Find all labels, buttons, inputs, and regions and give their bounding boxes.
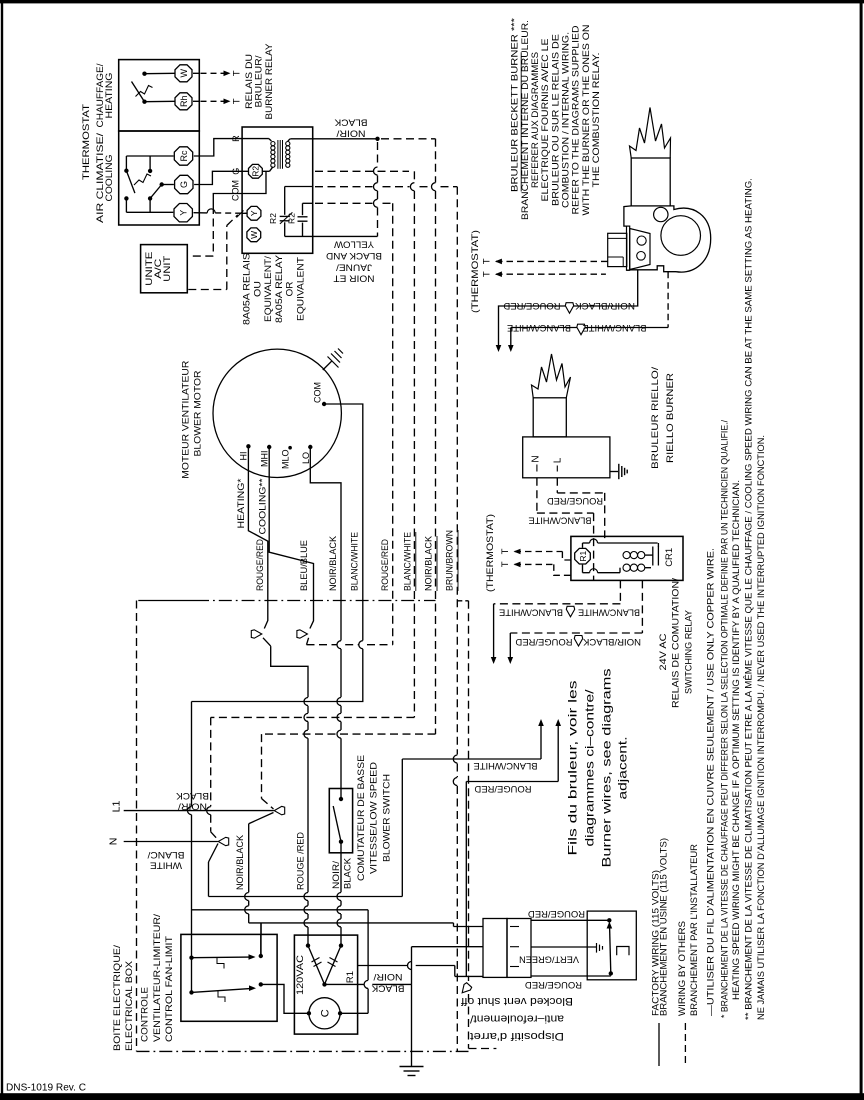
svg-text:NOIR/: NOIR/	[373, 971, 402, 982]
svg-text:MOTEUR VENTILATEUR: MOTEUR VENTILATEUR	[180, 361, 191, 479]
wire junction down (hops)	[377, 142, 379, 167]
svg-text:W: W	[179, 69, 189, 78]
wire B dashed from relay	[315, 170, 409, 172]
terminal Y	[174, 204, 192, 222]
wire G to relay	[194, 171, 242, 184]
legend WIRING BY OTHERS	[684, 1023, 686, 1066]
wire relay COM to A/C unit	[213, 194, 242, 207]
relay 8A05A box	[242, 127, 313, 253]
svg-text:BOITE ELECTRIQUE/: BOITE ELECTRIQUE/	[112, 945, 123, 1051]
blower motor circle	[213, 349, 341, 477]
relay COM wire	[242, 171, 266, 193]
svg-text:OR: OR	[285, 281, 296, 296]
Riello body	[523, 437, 610, 478]
wire D dashed from relay	[315, 202, 373, 204]
rail2 y909.8	[192, 909, 369, 911]
svg-text:N: N	[108, 838, 120, 846]
svg-text:COM: COM	[231, 180, 241, 201]
svg-text:UNIT: UNIT	[162, 255, 173, 281]
svg-text:R: R	[231, 135, 241, 142]
rail3 L1 y922.9	[249, 922, 454, 924]
relay contact R2 (NO)	[302, 203, 304, 215]
svg-text:NOIR ET: NOIR ET	[333, 273, 374, 284]
unit A/C box	[141, 245, 188, 293]
svg-text:BLACK: BLACK	[371, 983, 405, 994]
svg-text:JAUNE/: JAUNE/	[336, 261, 372, 272]
svg-text:—UTILISER DU FIL D’ALIMENTATIO: —UTILISER DU FIL D’ALIMENTATION EN CUIVR…	[705, 548, 716, 1016]
svg-text:G: G	[231, 168, 241, 175]
svg-text:Fils du bruleur, voir les: Fils du bruleur, voir les	[566, 681, 580, 856]
svg-text:T: T	[500, 561, 511, 567]
svg-text:BLANC/WHITE: BLANC/WHITE	[507, 322, 571, 333]
svg-text:BLACK AND: BLACK AND	[326, 250, 382, 261]
svg-text:WIRING BY OTHERS: WIRING BY OTHERS	[677, 921, 688, 1016]
motor terminals HI MHI MLO LO	[246, 444, 250, 448]
svg-text:BURNER RELAY: BURNER RELAY	[264, 43, 275, 120]
svg-text:ELECTRICAL BOX: ELECTRICAL BOX	[124, 960, 135, 1051]
svg-text:BLACK: BLACK	[175, 790, 209, 801]
svg-text:Burner wires, see diagrams: Burner wires, see diagrams	[600, 669, 614, 868]
svg-text:BLANC/: BLANC/	[147, 849, 184, 860]
svg-text:COM: COM	[313, 382, 323, 403]
svg-text:NE JAMAIS UTILISER LA FONCTION: NE JAMAIS UTILISER LA FONCTION D’ALLUMAG…	[756, 435, 767, 1020]
svg-text:VITESSE/LOW SPEED: VITESSE/LOW SPEED	[369, 762, 380, 874]
relay terminal W	[247, 228, 261, 242]
svg-text:T: T	[500, 548, 511, 554]
C circle	[309, 998, 340, 1029]
motor ground	[323, 361, 332, 370]
svg-text:NOIR/: NOIR/	[178, 801, 207, 812]
node NOIR/BLACK junction	[375, 137, 379, 141]
svg-text:(THERMOSTAT): (THERMOSTAT)	[470, 230, 481, 313]
wire N riser to rail1	[209, 844, 219, 863]
terminal Rh	[175, 93, 192, 110]
svg-text:ROUGE/RED: ROUGE/RED	[474, 783, 531, 794]
wire BLEU/BLUE from MHI	[269, 447, 313, 629]
svg-text:BLEU/BLUE: BLEU/BLUE	[299, 540, 310, 591]
blocked vent shut off box	[587, 911, 636, 980]
svg-text:R1: R1	[345, 971, 356, 983]
svg-text:BLANC/WHITE: BLANC/WHITE	[499, 607, 563, 618]
svg-text:Y: Y	[179, 210, 189, 216]
CR1 contact	[652, 547, 654, 566]
wire B dashed lower	[211, 716, 415, 718]
transformer in relay	[242, 138, 269, 140]
svg-text:BLANC/WHITE: BLANC/WHITE	[529, 515, 592, 526]
svg-text:BLANC/WHITE: BLANC/WHITE	[583, 322, 647, 333]
svg-text:CR1: CR1	[664, 548, 675, 567]
wire CR1 NOIR/BLACK out	[641, 580, 643, 633]
svg-text:BLANC/WHITE: BLANC/WHITE	[350, 532, 361, 591]
svg-text:24V AC: 24V AC	[658, 633, 669, 670]
svg-text:* BRANCHEMENT DE LA VITESSE D: * BRANCHEMENT DE LA VITESSE DE CHAUFFAGE…	[720, 420, 731, 1018]
svg-text:MHI: MHI	[260, 451, 270, 468]
Beckett air tube	[631, 158, 670, 206]
svg-text:BLANC/WHITE: BLANC/WHITE	[402, 532, 413, 591]
svg-text:8A05A RELAY: 8A05A RELAY	[274, 254, 285, 323]
svg-text:HEATING: HEATING	[104, 73, 115, 119]
wire switch to 120VAC box	[340, 842, 342, 853]
svg-text:diagrammes ci–contre/: diagrammes ci–contre/	[583, 689, 597, 847]
svg-text:ROUGE/RED: ROUGE/RED	[525, 979, 582, 990]
connector N spade	[218, 837, 229, 845]
legend FACTORY WIRING	[658, 1023, 660, 1066]
svg-text:EQUIVALENT/: EQUIVALENT/	[263, 256, 274, 322]
Beckett small circle	[654, 207, 668, 221]
BRUN jog line	[457, 600, 468, 602]
svg-text:R2: R2	[251, 166, 261, 177]
svg-text:ROUGE/RED: ROUGE/RED	[255, 539, 266, 591]
svg-text:VERT/GREEN: VERT/GREEN	[519, 954, 579, 965]
svg-text:WHITE: WHITE	[150, 860, 182, 871]
CR1 internal wiring top	[582, 543, 584, 548]
blower switch box	[329, 789, 352, 853]
connector L1 spade	[274, 806, 285, 814]
relay coil R1 terminal	[575, 548, 591, 564]
cooling switch	[126, 155, 173, 157]
wire NOIR/BLACK from LO	[310, 447, 341, 641]
Beckett connector plate	[630, 229, 650, 270]
vent switch symbol	[617, 947, 629, 956]
electrical box dashed boundary	[136, 601, 138, 1052]
svg-text:NOIR/BLACK: NOIR/BLACK	[235, 834, 246, 890]
Riello flame	[532, 354, 571, 398]
svg-text:COMUTATEUR DE BASSE: COMUTATEUR DE BASSE	[356, 755, 367, 881]
svg-text:NOIR/BLACK: NOIR/BLACK	[328, 535, 339, 591]
wire W to burner relay T	[193, 72, 199, 74]
ground wire	[411, 984, 413, 1066]
svg-text:N: N	[531, 455, 542, 462]
wire A dashed vertical	[435, 139, 437, 183]
svg-text:L: L	[553, 457, 564, 463]
svg-text:HI: HI	[239, 452, 249, 461]
svg-text:BRUN/BROWN: BRUN/BROWN	[445, 530, 456, 591]
small ground in shut off	[596, 943, 598, 953]
fan-limit right terminal wires	[260, 934, 262, 956]
wire BLANC/WHITE from COM	[324, 404, 363, 641]
receptacle right wires	[531, 919, 609, 921]
svg-text:R1: R1	[578, 550, 588, 561]
Beckett pedestal	[627, 226, 630, 270]
relay coil R2 terminal	[249, 164, 263, 178]
svg-text:EQUIVALENT: EQUIVALENT	[296, 257, 307, 321]
svg-text:T: T	[482, 258, 493, 264]
receptacle connector blocks	[483, 919, 507, 978]
svg-text:T: T	[232, 98, 243, 104]
svg-text:T: T	[482, 271, 493, 277]
wire Y to relay (dashed with hop)	[194, 212, 208, 214]
Riello air tube	[533, 398, 566, 437]
CR1 internal wiring bottom	[582, 565, 584, 573]
relay contact R2 (NC)	[284, 187, 286, 215]
svg-text:NOIR/BLACK: NOIR/BLACK	[424, 535, 435, 591]
svg-text:BLANC/WHITE: BLANC/WHITE	[578, 607, 640, 618]
svg-text:SWITCHING RELAY: SWITCHING RELAY	[683, 609, 694, 694]
blower switch arm	[333, 806, 341, 842]
wire N	[124, 841, 218, 843]
svg-text:NOIR/BLACK: NOIR/BLACK	[574, 300, 635, 311]
svg-text:ROUGE/RED: ROUGE/RED	[380, 539, 391, 591]
svg-text:T: T	[232, 70, 243, 76]
rail neutral y896.5	[209, 896, 403, 898]
svg-text:C: C	[319, 1009, 331, 1017]
svg-text:R2: R2	[287, 213, 297, 224]
wire NOIR/BLACK dashed to vertical A	[381, 138, 436, 140]
wire Riello L dashed	[556, 478, 558, 493]
boundary bottom dash-dot	[137, 1050, 469, 1052]
motor terminal COM	[322, 402, 326, 406]
connector BLEU	[297, 630, 308, 638]
svg-text:COOLING: COOLING	[104, 155, 115, 202]
wire X-output NOIR/BLACK	[325, 983, 364, 985]
svg-text:ROUGE/RED: ROUGE/RED	[503, 300, 560, 311]
CR1 coil	[623, 552, 630, 559]
Beckett burner flame	[630, 108, 671, 159]
burner ROUGE/RED feed	[465, 782, 467, 977]
svg-text:BLACK: BLACK	[343, 857, 354, 889]
contact wiring	[285, 186, 313, 188]
svg-text:8A05A RELAIS: 8A05A RELAIS	[242, 253, 253, 325]
svg-text:THERMOSTAT: THERMOSTAT	[81, 104, 92, 180]
svg-text:BLACK: BLACK	[334, 117, 368, 128]
connector ROUGE	[251, 630, 261, 638]
svg-text:BRANCHEMENT EN USINE (115 VOLT: BRANCHEMENT EN USINE (115 VOLTS)	[659, 838, 670, 1016]
wire Rh to burner relay T	[193, 100, 199, 102]
svg-text:THE COMBUSTION RELAY.: THE COMBUSTION RELAY.	[591, 53, 602, 188]
svg-text:R2: R2	[268, 213, 278, 224]
svg-text:anti–refoulement/: anti–refoulement/	[469, 1013, 564, 1025]
svg-text:Rh: Rh	[179, 96, 189, 108]
svg-text:ROUGE /RED: ROUGE /RED	[295, 832, 306, 890]
relay G wire to coil	[242, 170, 248, 172]
wire Riello N dashed	[536, 478, 538, 513]
svg-text:L1: L1	[111, 801, 123, 813]
svg-text:Y: Y	[249, 210, 259, 216]
wire Beckett NOIR/BLACK-ROUGE/RED	[499, 270, 638, 348]
terminal G	[175, 175, 193, 193]
svg-text:BRULEUR/: BRULEUR/	[253, 55, 264, 107]
wire C dashed from relay	[315, 186, 373, 188]
svg-text:HEATING*: HEATING*	[236, 478, 247, 528]
svg-text:VENTILATEUR-LIMITEUR/: VENTILATEUR-LIMITEUR/	[152, 914, 163, 1042]
svg-text:Blocked vent shut off: Blocked vent shut off	[460, 995, 573, 1007]
svg-text:RELAIS DE COMUTATION/: RELAIS DE COMUTATION/	[671, 578, 682, 708]
R1 contacts (X)	[308, 946, 325, 985]
Riello ground	[610, 471, 618, 473]
svg-text:ROUGE/RED: ROUGE/RED	[528, 908, 585, 919]
svg-text:BLOWER MOTOR: BLOWER MOTOR	[193, 370, 204, 456]
svg-text:W: W	[249, 231, 259, 239]
svg-text:** BRANCHEMENT DE LA VITESSE D: ** BRANCHEMENT DE LA VITESSE DE CLIMATIS…	[744, 178, 755, 1020]
switching relay CR1 box	[571, 536, 683, 580]
Beckett burner body	[624, 206, 631, 226]
cabinet dash-dot line	[138, 600, 196, 602]
svg-text:CONTROLE: CONTROLE	[140, 987, 151, 1042]
svg-text:CONTROL FAN-LIMIT: CONTROL FAN-LIMIT	[164, 936, 175, 1042]
svg-text:HEATING SPEED WIRING MIGHT BE: HEATING SPEED WIRING MIGHT BE CHANGE IF …	[731, 480, 742, 1000]
svg-text:(THERMOSTAT): (THERMOSTAT)	[485, 514, 496, 592]
svg-text:YELLOW: YELLOW	[334, 239, 374, 250]
fan-limit control box	[181, 934, 277, 1021]
Beckett junction box	[608, 233, 627, 266]
svg-text:adjacent.: adjacent.	[616, 737, 630, 800]
svg-text:G: G	[179, 181, 189, 188]
svg-text:BRULEUR RIELLO/: BRULEUR RIELLO/	[650, 367, 661, 469]
svg-text:NOIR/: NOIR/	[331, 861, 342, 889]
svg-text:ROUGE/RED: ROUGE/RED	[547, 495, 603, 506]
svg-text:RIELLO BURNER: RIELLO BURNER	[665, 373, 676, 463]
svg-text:DNS-1019 Rev. C: DNS-1019 Rev. C	[6, 1082, 86, 1094]
ground symbol	[400, 1066, 424, 1068]
wire Beckett BLANC/WHITE	[667, 272, 669, 328]
wire CR1 BLANC/WHITE out	[619, 580, 621, 603]
wire ROUGE/RED from HI	[248, 446, 267, 628]
svg-text:ROUGE/RED: ROUGE/RED	[515, 636, 572, 647]
terminal W	[175, 65, 192, 82]
rail neutral riser to burner BLANC/WHITE	[401, 759, 403, 897]
wire A dashed lower	[262, 733, 436, 735]
svg-text:BLOWER SWITCH: BLOWER SWITCH	[381, 774, 392, 862]
svg-text:Dispositif d’arret: Dispositif d’arret	[470, 1030, 564, 1042]
svg-text:COOLING**: COOLING**	[257, 478, 268, 534]
Beckett blower circle	[661, 216, 701, 256]
svg-text:LO: LO	[301, 452, 311, 464]
thermostat cooling box	[119, 131, 200, 225]
border frame	[0, 0, 864, 3]
wire D horizontal dashed	[307, 644, 337, 646]
wire Rc to relay R	[194, 139, 242, 156]
wire A/C unit to relay Y	[188, 289, 227, 291]
terminal Rc	[174, 147, 192, 165]
relay terminal Y	[247, 206, 261, 220]
svg-text:MLO: MLO	[280, 449, 290, 469]
svg-text:BLANC/WHITE: BLANC/WHITE	[474, 760, 538, 771]
relay Y wire	[242, 212, 247, 214]
svg-text:120VAC: 120VAC	[295, 955, 306, 995]
svg-text:NOIR/: NOIR/	[336, 128, 365, 139]
limit switch arrow	[192, 956, 250, 959]
fan switch arrow	[192, 989, 251, 993]
120VAC R1 box	[294, 935, 357, 1034]
thermostat heating box	[119, 60, 200, 131]
wire to receptacle row2 green	[411, 947, 413, 985]
heating switch	[142, 72, 146, 76]
wire 965 row	[358, 965, 408, 967]
svg-text:BRULEUR BECKETT BURNER ***: BRULEUR BECKETT BURNER ***	[510, 18, 521, 192]
svg-text:BRANCHEMENT PAR L’INSTALLATEUR: BRANCHEMENT PAR L’INSTALLATEUR	[689, 844, 700, 1016]
svg-text:Rc: Rc	[179, 150, 189, 161]
svg-text:OU: OU	[252, 281, 263, 297]
wire L1 riser NOIR/BLACK	[249, 813, 274, 824]
fan-limit left terminals	[189, 956, 193, 960]
svg-text:NOIR/BLACK: NOIR/BLACK	[582, 636, 641, 647]
wire L1	[124, 810, 274, 812]
